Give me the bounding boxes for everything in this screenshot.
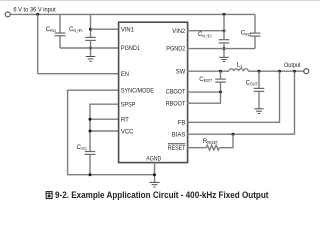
inductor L1 [229, 69, 248, 71]
capacitor CIN_HF1 [85, 14, 96, 56]
output terminal [304, 69, 309, 74]
wire VIN1 [91, 28, 120, 30]
svg-text:FB: FB [178, 119, 186, 126]
svg-text:CIN1: CIN1 [46, 26, 57, 33]
svg-text:CBOOT: CBOOT [166, 88, 186, 95]
svg-text:AGND: AGND [146, 156, 161, 163]
node PGND2 / CIN_HF2 [223, 47, 226, 50]
ground under CIN_HF2 [219, 57, 228, 61]
node CVCC / ground rail [89, 173, 92, 176]
svg-text:CIN2: CIN2 [241, 30, 252, 37]
ground under CIN_HF1 [86, 57, 95, 62]
node PGND1 / CIN_HF1 [89, 47, 92, 50]
wire CBOOT pin [187, 91, 221, 93]
svg-text:SW: SW [176, 68, 186, 75]
wire output rail [248, 70, 304, 72]
capacitor CIN1 [55, 14, 66, 48]
capacitor CIN2 [250, 14, 261, 48]
node COUT [258, 70, 261, 73]
overline for RESET [168, 143, 186, 145]
svg-text:RESET: RESET [168, 145, 186, 152]
node BIAS riser [293, 70, 296, 73]
ground under COUT [254, 109, 263, 114]
svg-text:9-2. Example Application Circu: 9-2. Example Application Circuit - 400-k… [55, 190, 269, 200]
svg-text:COUT: COUT [246, 79, 258, 86]
svg-text:RBOOT: RBOOT [166, 101, 186, 108]
svg-text:PGND1: PGND1 [121, 45, 140, 52]
node SW / CBOOT [219, 70, 222, 73]
wire input top rail [10, 13, 255, 15]
wire VIN2 [187, 30, 224, 32]
svg-text:EN: EN [121, 71, 129, 78]
capacitor CIN_HF2 [219, 14, 230, 57]
node input rail / VIN2 branch [223, 13, 226, 16]
wire AGND stub [154, 163, 156, 183]
wire SW [187, 70, 229, 72]
svg-text:SYNC/MODE: SYNC/MODE [121, 87, 154, 94]
svg-text:VIN1: VIN1 [121, 26, 134, 33]
op-amp U1 IC body [119, 22, 188, 162]
svg-text:CIN_HF1: CIN_HF1 [69, 26, 83, 33]
svg-text:BIAS: BIAS [172, 131, 186, 138]
svg-text:L1: L1 [237, 62, 243, 69]
svg-text:VCC: VCC [121, 128, 134, 135]
input terminal [5, 12, 10, 17]
svg-text:6 V to 36 V input: 6 V to 36 V input [13, 7, 55, 14]
wire RBOOT pin [187, 92, 221, 103]
capacitor CVCC [85, 152, 96, 175]
ground at AGND [150, 182, 160, 187]
capacitor CBOOT [215, 71, 226, 92]
resistor RRESET [206, 145, 219, 150]
node BIAS / RRESET [232, 133, 235, 136]
svg-text:VIN2: VIN2 [172, 28, 185, 35]
wire EN to IC [38, 73, 119, 75]
svg-text:SPSP: SPSP [121, 101, 135, 108]
svg-text:RT: RT [121, 116, 129, 123]
svg-text:CIN_HF2: CIN_HF2 [198, 31, 212, 38]
svg-text:Output: Output [284, 63, 301, 69]
caption chinese character 图 (drawn) [46, 192, 52, 199]
node FB riser [278, 70, 281, 73]
node CBOOT / RBOOT [219, 91, 222, 94]
node VIN2 / CIN_HF2 [223, 29, 226, 32]
node SPSP/VCC [89, 130, 92, 133]
wire PGND2 to CIN2 [187, 48, 255, 50]
wire EN drop from input rail [37, 14, 39, 73]
svg-text:PGND2: PGND2 [166, 46, 185, 53]
node SPSP/RT [89, 118, 92, 121]
wire SPSP to IC [90, 104, 119, 151]
node VIN1 / CIN_HF1 [89, 28, 92, 31]
node input rail / EN branch [36, 13, 39, 16]
page top edge line [0, 0, 320, 2]
wire BIAS [187, 71, 295, 134]
wire SYNC/MODE to IC and drop to ground rail [68, 90, 155, 175]
svg-text:RRESET: RRESET [203, 138, 218, 145]
wire PGND1 [60, 47, 119, 49]
svg-text:CVCC: CVCC [77, 144, 88, 151]
wire RRESET to BIAS node [219, 134, 233, 148]
wire RT to IC [90, 118, 119, 120]
wire RESET [187, 147, 206, 149]
node AGND / ground rail [153, 173, 156, 176]
wire VCC to IC [90, 130, 119, 132]
capacitor COUT [254, 71, 265, 108]
svg-text:CBOOT: CBOOT [199, 76, 212, 83]
wire FB [187, 71, 280, 122]
